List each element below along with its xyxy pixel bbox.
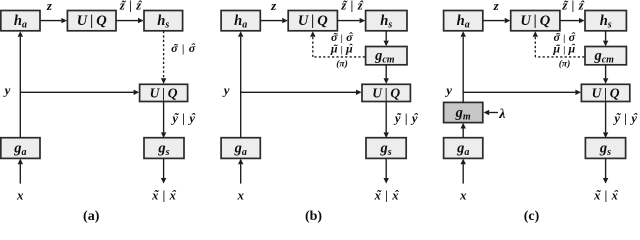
svg-text:U | Q: U | Q xyxy=(372,86,400,101)
svg-text:λ: λ xyxy=(498,107,505,122)
label ztilde|zhat (c) xyxy=(561,0,585,13)
svg-text:|: | xyxy=(341,34,343,44)
svg-text:U | Q: U | Q xyxy=(592,86,620,101)
block h_s (c) xyxy=(585,11,626,31)
svg-text:U | Q: U | Q xyxy=(520,13,550,29)
label xtilde|xhat (b) xyxy=(374,188,399,202)
svg-text:|: | xyxy=(163,188,166,202)
label ytilde|yhat (a) xyxy=(170,111,195,125)
svg-text:z: z xyxy=(46,0,53,13)
wire g_cm to U|Q decoder (b) xyxy=(384,65,389,84)
wire g_cm to U|Q decoder (c) xyxy=(603,65,608,84)
svg-text:|: | xyxy=(605,188,608,202)
svg-text:|: | xyxy=(572,0,575,13)
block h_s (b) xyxy=(366,11,407,31)
block g_m modulation (c) xyxy=(444,102,483,122)
wire x input to g_a (b) xyxy=(238,159,243,184)
svg-text:z: z xyxy=(493,0,500,13)
svg-text:|: | xyxy=(182,111,185,125)
label xtilde|xhat (c) xyxy=(593,188,618,202)
wire z: h_a to U|Q (b) xyxy=(261,18,288,23)
block g_s (c) xyxy=(585,138,625,159)
wire h_s to g_cm (c) xyxy=(603,31,608,46)
wire ztilde: U|Q to h_s (a) xyxy=(116,18,143,23)
label sigmatilde|sigmahat (a) xyxy=(171,41,196,55)
svg-text:y: y xyxy=(444,83,452,98)
block U|Q encoder (c) xyxy=(511,11,560,31)
block h_a (b) xyxy=(221,11,260,31)
block g_s (b) xyxy=(366,138,406,159)
svg-text:|: | xyxy=(182,43,184,55)
label mutilde|muhat (c) xyxy=(552,41,575,55)
wire z: h_a to U|Q (a) xyxy=(40,18,67,23)
block h_a (c) xyxy=(444,11,483,31)
wire main column up to h_a (b) xyxy=(238,31,243,138)
wire U|Q decoder to g_s (c) xyxy=(603,102,608,139)
svg-text:U | Q: U | Q xyxy=(298,13,328,29)
block g_s (a) xyxy=(144,138,184,159)
label sigmatilde|sigmahat (b) xyxy=(331,30,353,44)
wire y to U|Q decoder (b) xyxy=(241,90,362,95)
block g_a (a) xyxy=(1,138,40,159)
svg-text:y: y xyxy=(3,83,11,98)
svg-text:x: x xyxy=(16,187,24,202)
block U|Q decoder (b) xyxy=(362,84,410,101)
block g_a (c) xyxy=(444,138,483,159)
svg-text:(a): (a) xyxy=(83,209,100,224)
dashed wire sigma: h_s to U|Q decoder (a) xyxy=(161,31,166,84)
svg-text:(b): (b) xyxy=(305,209,322,224)
svg-text:z: z xyxy=(270,0,277,13)
wire x input to g_a (a) xyxy=(18,159,23,184)
svg-text:(π): (π) xyxy=(559,58,571,69)
svg-text:y: y xyxy=(222,83,230,98)
svg-text:|: | xyxy=(341,45,343,55)
wire y to U|Q decoder (c) xyxy=(463,90,581,95)
wire ztilde: U|Q to h_s (c) xyxy=(560,18,584,23)
wire h_s to g_cm (b) xyxy=(384,31,389,46)
wire y to U|Q decoder (a) xyxy=(20,90,139,95)
svg-text:(π): (π) xyxy=(336,58,348,69)
svg-text:U | Q: U | Q xyxy=(77,13,107,29)
dashed feedback wire from g_cm (b) xyxy=(313,56,365,58)
wire x input to g_a (c) xyxy=(461,159,466,184)
block h_a (a) xyxy=(1,11,40,31)
wire g_s output (a) xyxy=(161,158,166,183)
svg-text:|: | xyxy=(351,0,354,13)
svg-text:|: | xyxy=(385,188,388,202)
label sigmatilde|sigmahat (c) xyxy=(553,30,575,44)
svg-text:|: | xyxy=(563,34,565,44)
block U|Q decoder (c) xyxy=(581,84,629,101)
block h_s (a) xyxy=(144,11,183,31)
wire U|Q decoder to g_s (b) xyxy=(384,102,389,139)
dashed feedback wire from g_cm (c) xyxy=(535,56,584,58)
block U|Q decoder (a) xyxy=(140,84,188,101)
svg-text:|: | xyxy=(129,0,132,13)
wire g_m up to h_a (c) xyxy=(461,31,466,102)
svg-text:x: x xyxy=(236,187,244,202)
wire g_a to g_m (c) xyxy=(461,123,466,138)
label ytilde|yhat (b) xyxy=(393,111,418,125)
wire ztilde: U|Q to h_s (b) xyxy=(338,18,366,23)
wire lambda into g_m (c) xyxy=(484,110,498,115)
svg-text:|: | xyxy=(563,45,565,55)
wire g_s output (c) xyxy=(603,158,608,183)
label ytilde|yhat (c) xyxy=(612,111,637,125)
dashed feedback vertical into U|Q encoder (c) xyxy=(533,31,538,57)
label ztilde|zhat (a) xyxy=(119,0,143,13)
block g_a (b) xyxy=(221,138,260,159)
block U|Q encoder (a) xyxy=(67,11,116,31)
wire z: h_a to U|Q (c) xyxy=(483,18,510,23)
svg-text:|: | xyxy=(624,111,627,125)
label xtilde|xhat (a) xyxy=(151,188,176,202)
label mutilde|muhat (b) xyxy=(330,41,353,55)
block U|Q encoder (b) xyxy=(288,11,337,31)
label ztilde|zhat (b) xyxy=(340,0,364,13)
block g_cm context model (b) xyxy=(366,47,407,66)
wire g_s output (b) xyxy=(384,158,389,183)
svg-text:x: x xyxy=(459,187,467,202)
svg-text:U | Q: U | Q xyxy=(150,86,178,101)
svg-text:(c): (c) xyxy=(524,209,540,224)
dashed feedback vertical into U|Q encoder (b) xyxy=(310,31,315,57)
wire main column up to h_a (a) xyxy=(18,31,23,138)
block g_cm context model (c) xyxy=(585,47,626,66)
wire U|Q decoder to g_s (a) xyxy=(161,102,166,139)
svg-text:|: | xyxy=(405,111,408,125)
